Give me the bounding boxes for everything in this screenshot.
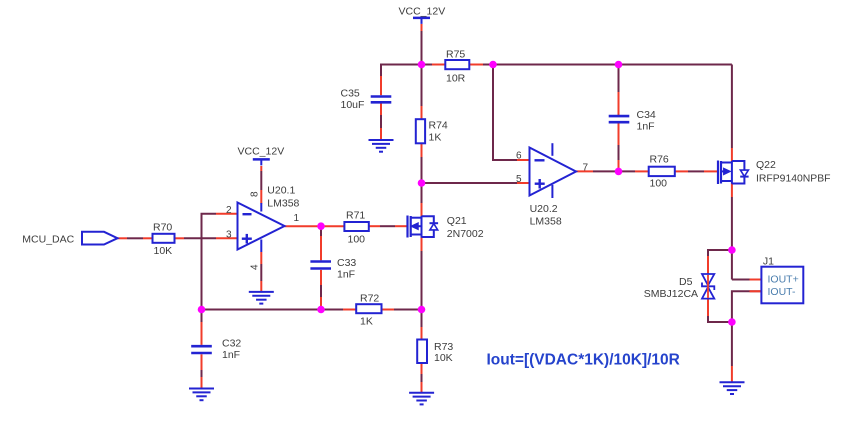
svg-text:IOUT+: IOUT+ [768,273,799,285]
svg-text:LM358: LM358 [530,216,562,228]
svg-text:LM358: LM358 [267,197,299,209]
svg-text:R72: R72 [360,293,379,305]
svg-text:R74: R74 [429,119,448,131]
svg-text:1nF: 1nF [637,121,655,133]
svg-text:1nF: 1nF [222,349,240,361]
svg-text:IOUT-: IOUT- [768,286,797,298]
svg-text:VCC_12V: VCC_12V [238,145,285,157]
svg-text:10K: 10K [434,352,453,364]
svg-text:1: 1 [294,213,300,224]
svg-text:J1: J1 [763,255,774,267]
svg-text:2N7002: 2N7002 [447,228,484,240]
svg-text:C35: C35 [341,87,360,99]
svg-text:Q21: Q21 [447,215,467,227]
svg-text:100: 100 [650,177,668,189]
svg-text:10K: 10K [154,245,173,257]
svg-text:1nF: 1nF [337,268,355,280]
svg-text:MCU_DAC: MCU_DAC [22,233,74,245]
svg-text:Q22: Q22 [756,159,776,171]
svg-text:2: 2 [226,205,232,216]
svg-text:6: 6 [516,150,522,161]
svg-text:1K: 1K [429,131,442,143]
svg-text:5: 5 [516,174,522,185]
svg-text:1K: 1K [360,316,373,328]
svg-text:100: 100 [348,233,366,245]
svg-text:C32: C32 [222,337,241,349]
svg-text:IRFP9140NPBF: IRFP9140NPBF [756,174,831,185]
svg-text:U20.1: U20.1 [267,185,295,197]
svg-text:R76: R76 [650,153,669,165]
svg-text:7: 7 [583,162,589,173]
svg-text:R71: R71 [346,209,365,221]
svg-text:3: 3 [226,229,232,240]
svg-text:VCC_12V: VCC_12V [399,6,446,18]
svg-text:C34: C34 [637,109,656,121]
svg-text:D5: D5 [679,276,693,288]
svg-text:R75: R75 [446,48,465,60]
svg-text:4: 4 [250,264,261,270]
svg-text:10uF: 10uF [341,99,365,111]
svg-text:R70: R70 [153,222,172,234]
svg-text:C33: C33 [337,257,356,269]
svg-text:Iout=[(VDAC*1K)/10K]/10R: Iout=[(VDAC*1K)/10K]/10R [487,352,680,369]
svg-text:U20.2: U20.2 [530,203,558,215]
svg-text:8: 8 [250,191,261,197]
svg-text:SMBJ12CA: SMBJ12CA [644,288,698,300]
svg-text:10R: 10R [446,72,466,84]
